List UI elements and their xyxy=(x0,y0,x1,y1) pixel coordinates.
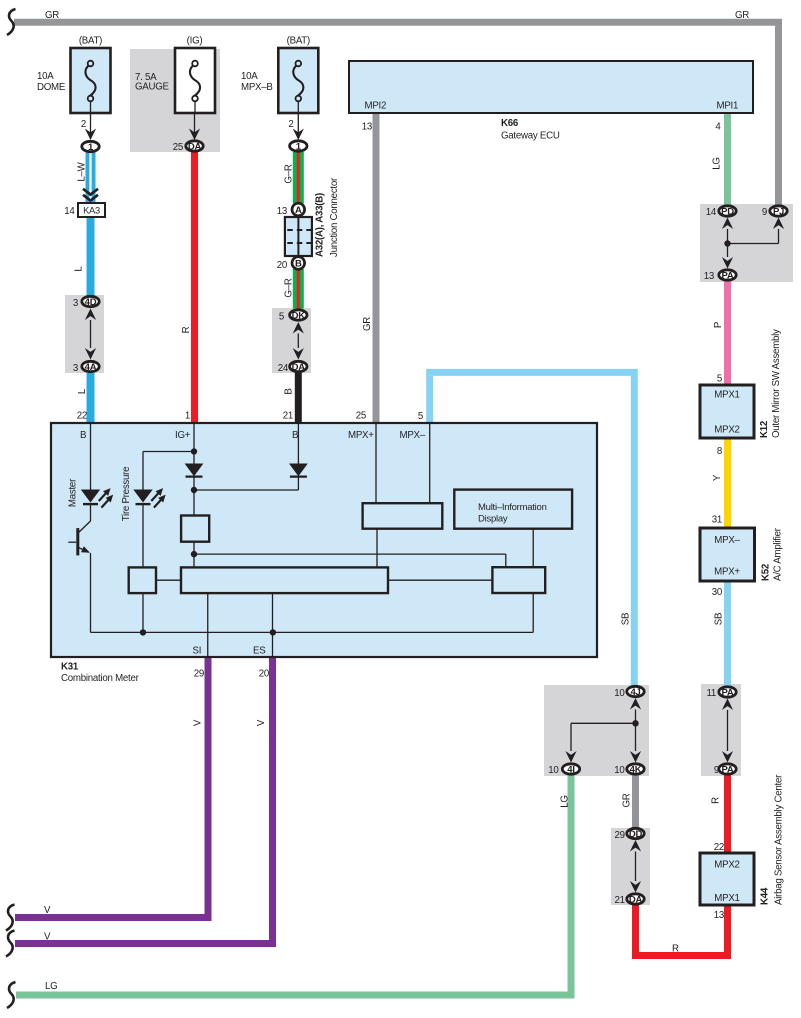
svg-text:9: 9 xyxy=(762,207,767,218)
svg-text:DA: DA xyxy=(188,141,202,152)
svg-text:Outer Mirror SW Assembly: Outer Mirror SW Assembly xyxy=(771,329,782,438)
svg-text:Display: Display xyxy=(478,514,508,525)
svg-text:B: B xyxy=(80,430,86,441)
svg-text:29: 29 xyxy=(194,669,204,680)
svg-text:MPX2: MPX2 xyxy=(714,425,739,436)
svg-text:4D: 4D xyxy=(85,297,97,308)
svg-text:10A: 10A xyxy=(241,71,258,82)
svg-text:V: V xyxy=(44,905,51,916)
svg-text:IG+: IG+ xyxy=(175,430,191,441)
svg-text:PA: PA xyxy=(722,687,734,698)
svg-text:3: 3 xyxy=(73,298,78,309)
svg-text:Multi–Information: Multi–Information xyxy=(478,502,547,513)
svg-text:MPX1: MPX1 xyxy=(714,390,739,401)
svg-text:DA: DA xyxy=(629,894,643,905)
svg-text:SI: SI xyxy=(193,646,202,657)
svg-text:MPX2: MPX2 xyxy=(714,860,739,871)
svg-text:25: 25 xyxy=(173,142,183,153)
svg-text:K66: K66 xyxy=(501,118,519,129)
svg-text:MPX+: MPX+ xyxy=(714,567,740,578)
svg-text:DK: DK xyxy=(292,310,306,321)
svg-text:9: 9 xyxy=(714,765,719,776)
svg-text:MPX–: MPX– xyxy=(714,535,740,546)
svg-text:4K: 4K xyxy=(630,764,642,775)
svg-text:MPI2: MPI2 xyxy=(365,101,387,112)
svg-text:MPI1: MPI1 xyxy=(717,101,739,112)
svg-text:14: 14 xyxy=(64,206,75,217)
svg-text:L: L xyxy=(74,266,85,272)
svg-text:L: L xyxy=(77,388,88,394)
svg-text:4: 4 xyxy=(715,122,721,133)
svg-text:10: 10 xyxy=(614,765,625,776)
svg-text:22: 22 xyxy=(77,411,87,422)
svg-text:13: 13 xyxy=(714,910,724,921)
svg-text:10A: 10A xyxy=(37,71,54,82)
svg-text:1: 1 xyxy=(185,411,190,422)
svg-text:DA: DA xyxy=(292,362,306,373)
svg-text:GAUGE: GAUGE xyxy=(135,82,170,93)
svg-text:Combination Meter: Combination Meter xyxy=(61,673,140,684)
svg-text:25: 25 xyxy=(356,411,366,422)
svg-text:20: 20 xyxy=(259,669,270,680)
svg-text:DOME: DOME xyxy=(37,82,66,93)
svg-text:10: 10 xyxy=(548,765,559,776)
svg-text:A/C Amplifier: A/C Amplifier xyxy=(773,527,784,581)
svg-text:13: 13 xyxy=(704,271,714,282)
svg-text:K52: K52 xyxy=(761,564,772,581)
svg-text:MPX+: MPX+ xyxy=(348,430,374,441)
svg-text:V: V xyxy=(193,719,204,726)
svg-text:5: 5 xyxy=(279,312,284,323)
svg-text:MPX–: MPX– xyxy=(400,430,426,441)
svg-text:PA: PA xyxy=(722,270,734,281)
svg-text:G–R: G–R xyxy=(284,164,295,183)
svg-text:R: R xyxy=(711,797,722,804)
svg-text:(BAT): (BAT) xyxy=(287,36,310,47)
svg-text:GR: GR xyxy=(622,793,633,807)
svg-text:B: B xyxy=(284,388,295,394)
svg-text:13: 13 xyxy=(277,206,287,217)
svg-text:MPX–B: MPX–B xyxy=(241,82,273,93)
svg-text:8: 8 xyxy=(717,446,722,457)
svg-text:R: R xyxy=(181,326,192,333)
svg-text:22: 22 xyxy=(714,842,724,853)
svg-text:K31: K31 xyxy=(61,662,79,673)
svg-text:SB: SB xyxy=(621,613,632,625)
svg-text:29: 29 xyxy=(615,830,625,841)
svg-text:ES: ES xyxy=(253,646,266,657)
svg-text:4A: 4A xyxy=(85,362,97,373)
svg-text:21: 21 xyxy=(283,411,293,422)
svg-text:B: B xyxy=(292,430,298,441)
svg-text:A: A xyxy=(295,205,302,216)
svg-text:LG: LG xyxy=(45,981,57,992)
svg-text:GR: GR xyxy=(362,317,373,331)
svg-text:KA3: KA3 xyxy=(83,206,100,216)
svg-text:K44: K44 xyxy=(760,887,771,905)
svg-text:2: 2 xyxy=(81,119,86,130)
svg-text:14: 14 xyxy=(706,207,717,218)
svg-text:PA: PA xyxy=(722,764,734,775)
svg-text:Gateway ECU: Gateway ECU xyxy=(501,131,560,142)
svg-text:P: P xyxy=(713,322,724,328)
svg-text:2: 2 xyxy=(288,119,293,130)
svg-text:MPX1: MPX1 xyxy=(714,893,739,904)
svg-text:B: B xyxy=(295,258,302,269)
svg-text:13: 13 xyxy=(362,122,372,133)
svg-text:GR: GR xyxy=(45,10,59,21)
svg-text:4J: 4J xyxy=(630,687,640,698)
svg-text:Y: Y xyxy=(712,474,723,481)
svg-text:11: 11 xyxy=(706,688,716,699)
svg-text:24: 24 xyxy=(278,363,289,374)
svg-text:20: 20 xyxy=(277,260,288,271)
svg-text:LG: LG xyxy=(712,157,723,169)
svg-text:3: 3 xyxy=(73,363,78,374)
svg-text:31: 31 xyxy=(712,515,722,526)
svg-text:R: R xyxy=(672,944,679,955)
svg-text:L–W: L–W xyxy=(77,161,88,181)
svg-text:G–R: G–R xyxy=(284,278,295,297)
svg-text:5: 5 xyxy=(418,411,423,422)
svg-text:SB: SB xyxy=(714,613,725,625)
svg-text:Airbag Sensor Assembly Center: Airbag Sensor Assembly Center xyxy=(774,774,785,905)
svg-text:10: 10 xyxy=(614,688,625,699)
svg-text:V: V xyxy=(256,719,267,726)
svg-text:V: V xyxy=(44,932,51,943)
svg-text:4I: 4I xyxy=(567,764,574,775)
svg-text:(IG): (IG) xyxy=(187,36,203,47)
svg-text:PD: PD xyxy=(721,206,734,217)
svg-text:Tire Pressure: Tire Pressure xyxy=(121,467,132,522)
svg-text:5: 5 xyxy=(717,374,722,385)
svg-text:(BAT): (BAT) xyxy=(79,36,102,47)
svg-text:GR: GR xyxy=(735,10,749,21)
svg-text:PJ: PJ xyxy=(773,206,784,217)
svg-text:30: 30 xyxy=(712,587,723,598)
svg-text:DD: DD xyxy=(629,829,643,840)
svg-text:21: 21 xyxy=(615,895,625,906)
svg-text:K12: K12 xyxy=(759,421,770,438)
svg-text:Master: Master xyxy=(67,478,78,507)
svg-text:Junction Connector: Junction Connector xyxy=(329,177,340,257)
svg-text:A32(A), A33(B): A32(A), A33(B) xyxy=(315,193,326,257)
svg-text:LG: LG xyxy=(560,795,571,807)
